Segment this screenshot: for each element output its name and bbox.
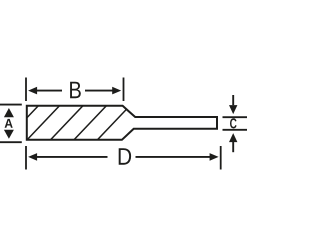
hatch line 4 xyxy=(73,104,108,141)
dimension C: top extension line xyxy=(223,116,248,118)
hatching of head cross-section xyxy=(5,104,132,141)
dimension D: right arrow xyxy=(210,153,219,161)
dimension B: left extension line xyxy=(25,78,27,102)
label C xyxy=(230,118,237,128)
dimension C: bottom extension line xyxy=(223,129,248,131)
dimension B: right extension line xyxy=(123,78,125,102)
label A xyxy=(5,119,13,128)
dimension D: right extension line xyxy=(220,146,222,170)
hatch line 1 (corner piece) xyxy=(5,104,40,141)
dimension B: right arrow xyxy=(112,87,121,95)
dimension D: left extension line xyxy=(25,146,27,170)
dimension C: lower arrow pointing up xyxy=(232,142,234,152)
dimension A: up arrow xyxy=(4,108,14,117)
hatch line 5 xyxy=(96,104,131,141)
label B xyxy=(70,82,81,98)
hatch line 3 xyxy=(49,104,84,141)
dimension B: left arrow xyxy=(28,87,37,95)
dimension D: left arrow xyxy=(28,153,37,161)
dimension A: top extension line xyxy=(0,104,22,106)
label D xyxy=(119,148,131,164)
dimension C: upper arrow pointing down xyxy=(232,95,234,105)
dimension A: down arrow xyxy=(4,130,14,139)
dimension A: bottom extension line xyxy=(0,141,22,143)
burr body outline (head + shank) xyxy=(27,106,217,140)
hatch line 2 xyxy=(26,104,61,141)
